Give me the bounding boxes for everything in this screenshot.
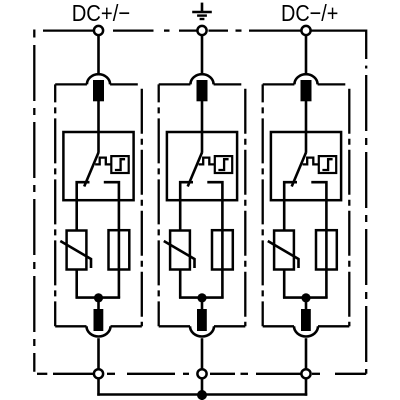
thermal disconnect device (top, filled bar) module 1 [93, 80, 104, 101]
module 1 dashed border right edge [141, 89, 143, 327]
wire from top terminal into module 3 [305, 35, 308, 74]
plug-in contact arc (top) module 3 [294, 74, 317, 84]
actuator linkage (meander) module 2 [199, 158, 215, 165]
svg-text:DC+/−: DC+/− [72, 0, 131, 26]
wire bottom connector joining branches, module 1 [76, 296, 121, 299]
wire disconnect to switch box, module 3 [305, 101, 308, 153]
left fixed contact and wire to varistor, module 3 [284, 182, 297, 231]
wire to bottom terminal, module 3 [305, 338, 308, 369]
temperature switch box (with step glyph) module 2 [215, 156, 232, 173]
module 2 dashed border top edge [159, 83, 242, 85]
wire bottom connector joining branches, module 2 [179, 296, 224, 299]
actuator linkage (meander) module 3 [303, 158, 319, 165]
ground (earth symbol above middle terminal) [192, 3, 212, 19]
node junction dot, module 3 [301, 293, 310, 302]
wire equipotential bus [97, 393, 307, 396]
node junction dot, module 2 [197, 293, 206, 302]
module 2 dashed border left edge [158, 84, 160, 326]
thermal disconnect device (top, filled bar) module 2 [197, 80, 208, 101]
module 2 dashed border bottom edge [159, 325, 246, 327]
thermal disconnect device (bottom, filled bar) module 2 [197, 309, 207, 331]
plug-in contact arc (bottom) module 3 [294, 326, 318, 336]
right fixed contact and wire through fuse branch, module 1 [104, 182, 119, 298]
node bus junction dot (PE) [197, 390, 207, 400]
thermal disconnect device (bottom, filled bar) module 1 [94, 309, 104, 331]
step glyph inside temperature switch, module 3 [322, 159, 332, 170]
wire junction to bottom disconnect, module 1 [97, 298, 100, 310]
module 3 dashed border left edge [262, 84, 264, 326]
wire bottom terminal 3 down to bus [305, 378, 308, 395]
module 3 dashed border top edge [263, 83, 346, 85]
switch blade (moving contact) module 2 [188, 153, 202, 187]
switch blade (moving contact) module 1 [84, 153, 98, 187]
module 1 dashed border left edge [54, 84, 56, 326]
switch box (disconnector with status indication) module 3 [271, 132, 341, 200]
step glyph inside temperature switch, module 1 [115, 159, 125, 170]
wire junction to bottom disconnect, module 3 [305, 298, 308, 310]
switch box (disconnector with status indication) module 2 [167, 132, 237, 200]
wire: outer boundary right edge (dash-dot), x=366.2 [365, 30, 367, 374]
wire bottom terminal 2 down to bus and PE conductor exit [201, 378, 204, 400]
node terminal PE (top terminal circle, module 2) [197, 26, 206, 35]
wire to bottom terminal, module 1 [97, 338, 100, 369]
node terminal DC-/+ (top terminal circle, module 3) [301, 26, 310, 35]
wire disconnect to switch box, module 2 [201, 101, 204, 153]
fuse F3 (series element rectangle) [316, 230, 337, 269]
left fixed contact and wire to varistor, module 1 [77, 182, 90, 231]
node junction dot, module 1 [94, 293, 103, 302]
wire to bottom terminal, module 2 [201, 338, 204, 369]
right fixed contact and wire through fuse branch, module 3 [311, 182, 326, 298]
varistor RV3 diagonal stroke [268, 241, 299, 268]
plug-in contact arc (top) module 1 [87, 74, 110, 84]
step glyph inside temperature switch, module 2 [218, 159, 228, 170]
node bottom terminal circle, module 2 [197, 369, 206, 378]
svg-text:DC−/+: DC−/+ [281, 0, 338, 26]
wire varistor bottom to junction, module 3 [283, 270, 286, 299]
wire: outer boundary bottom edge (dash-dot), y=373.8 [37, 373, 366, 375]
wire disconnect to switch box, module 1 [97, 101, 100, 153]
node terminal DC+/- (top terminal circle, module 1) [94, 26, 103, 35]
wire: outer boundary left edge (dash-dot), x=34.3 [33, 30, 35, 372]
fuse F1 (series element rectangle) [109, 230, 130, 269]
fuse F2 (series element rectangle) [212, 230, 233, 269]
varistor RV2 (rectangle) [170, 231, 190, 270]
varistor RV1 (rectangle) [67, 231, 87, 270]
module 3 dashed border bottom edge [263, 325, 350, 327]
wire from top terminal into module 2 [201, 35, 204, 74]
left fixed contact and wire to varistor, module 2 [180, 182, 193, 231]
module 2 dashed border right edge [244, 89, 246, 327]
wire varistor bottom to junction, module 2 [179, 270, 182, 299]
node bottom terminal circle, module 3 [301, 369, 310, 378]
wire junction to bottom disconnect, module 2 [201, 298, 204, 310]
switch blade (moving contact) module 3 [292, 153, 306, 187]
thermal disconnect device (top, filled bar) module 3 [301, 80, 312, 101]
varistor RV1 diagonal stroke [60, 241, 91, 268]
wire: outer boundary top edge (dash-dot), y=30.6 [43, 29, 366, 31]
module 1 dashed border top edge [55, 83, 138, 85]
right fixed contact and wire through fuse branch, module 2 [207, 182, 222, 298]
varistor RV2 diagonal stroke [164, 241, 195, 268]
node bottom terminal circle, module 1 [94, 369, 103, 378]
temperature switch box (with step glyph) module 1 [111, 156, 128, 173]
temperature switch box (with step glyph) module 3 [319, 156, 336, 173]
module 1 dashed border bottom edge [55, 325, 142, 327]
thermal disconnect device (bottom, filled bar) module 3 [301, 309, 311, 331]
varistor RV3 (rectangle) [274, 231, 294, 270]
plug-in contact arc (bottom) module 1 [87, 326, 111, 336]
switch box (disconnector with status indication) module 1 [63, 132, 133, 200]
wire varistor bottom to junction, module 1 [75, 270, 78, 299]
plug-in contact arc (top) module 2 [190, 74, 213, 84]
wire bottom terminal 1 down to bus [97, 378, 100, 395]
plug-in contact arc (bottom) module 2 [190, 326, 214, 336]
wire bottom connector joining branches, module 3 [283, 296, 328, 299]
wire from top terminal into module 1 [97, 35, 100, 74]
module 3 dashed border right edge [348, 89, 350, 327]
actuator linkage (meander) module 1 [95, 158, 111, 165]
